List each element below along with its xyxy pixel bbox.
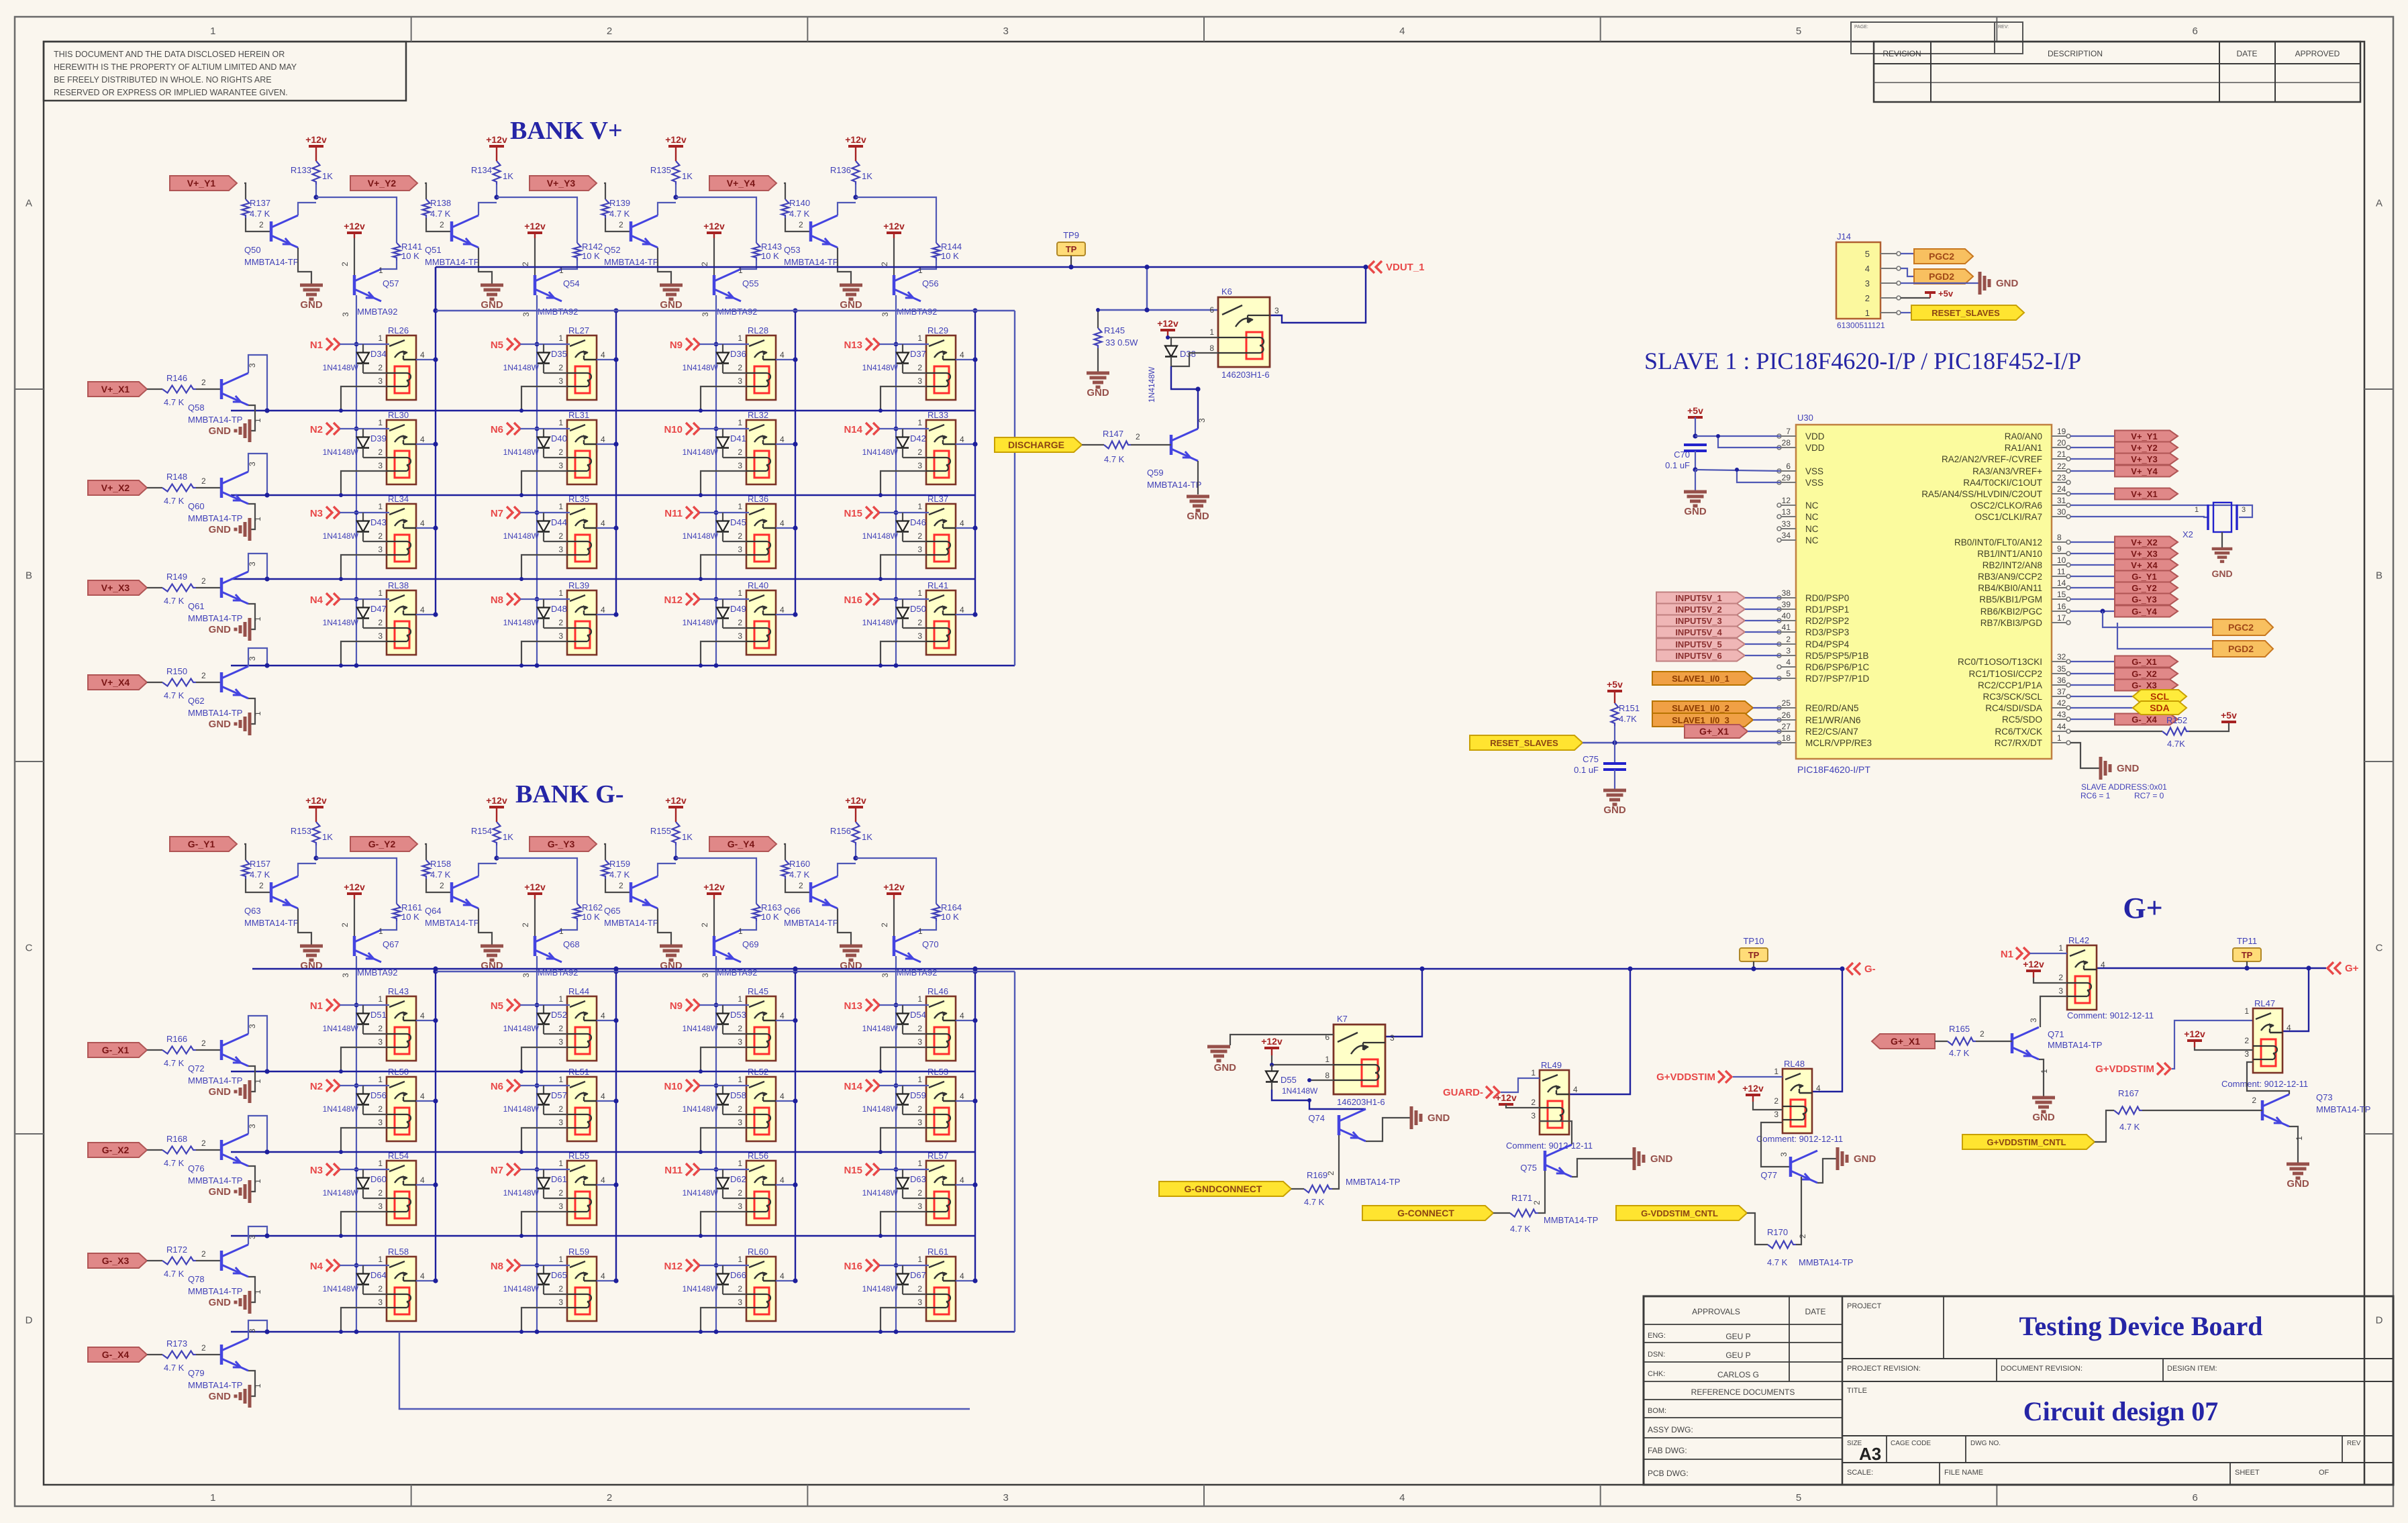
svg-text:GND: GND xyxy=(1650,1153,1673,1165)
svg-text:3: 3 xyxy=(1003,1492,1009,1504)
svg-text:MMBTA92: MMBTA92 xyxy=(357,307,397,317)
wire xyxy=(534,899,536,936)
svg-text:Q64: Q64 xyxy=(425,906,442,916)
wire VSS pins xyxy=(1695,470,1780,471)
svg-text:B: B xyxy=(2376,570,2382,582)
port flag G-_Y3 xyxy=(530,837,597,851)
svg-text:3: 3 xyxy=(1786,646,1791,655)
svg-text:1: 1 xyxy=(558,1255,563,1264)
resistor R137 4.7K xyxy=(242,199,250,218)
svg-text:4: 4 xyxy=(601,350,605,360)
wire xyxy=(676,858,756,904)
svg-text:1: 1 xyxy=(210,1492,215,1504)
row bus wire xyxy=(231,410,975,411)
svg-text:R138: R138 xyxy=(430,198,451,208)
svg-text:Q70: Q70 xyxy=(922,939,939,949)
svg-text:4: 4 xyxy=(601,1175,605,1185)
pin 18 MCLR/VPP/RE3 xyxy=(1781,742,1796,743)
svg-text:2: 2 xyxy=(880,262,889,266)
svg-text:Q60: Q60 xyxy=(188,501,205,511)
svg-text:N10: N10 xyxy=(664,1081,683,1092)
svg-text:2: 2 xyxy=(917,1104,922,1114)
svg-text:V+_X1: V+_X1 xyxy=(2131,489,2157,499)
transistor Q51 MMBTA14-TP xyxy=(450,221,454,242)
wire xyxy=(562,260,577,269)
svg-text:+5v: +5v xyxy=(1687,405,1703,416)
pin 41 RD3/PSP3 xyxy=(1781,631,1796,633)
svg-text:4: 4 xyxy=(601,1011,605,1020)
svg-text:V+_Y2: V+_Y2 xyxy=(368,178,397,189)
wire xyxy=(479,248,492,285)
svg-text:DWG NO.: DWG NO. xyxy=(1970,1440,2001,1447)
wire xyxy=(479,203,497,215)
port G-GNDCONNECT xyxy=(1159,1181,1291,1196)
wire xyxy=(881,1212,926,1236)
wire xyxy=(534,238,536,275)
svg-text:2: 2 xyxy=(917,618,922,627)
svg-text:+12v: +12v xyxy=(524,221,546,231)
svg-text:3: 3 xyxy=(378,1202,383,1211)
svg-text:D64: D64 xyxy=(370,1270,387,1280)
wire xyxy=(879,1004,929,1006)
svg-text:2: 2 xyxy=(340,262,350,266)
svg-text:GND: GND xyxy=(2287,1178,2309,1190)
transistor Q71 MMBTA14-TP xyxy=(2011,1033,2014,1053)
svg-text:2: 2 xyxy=(558,1024,563,1033)
svg-text:OSC1/CLKI/RA7: OSC1/CLKI/RA7 xyxy=(1974,512,2042,522)
svg-text:1: 1 xyxy=(378,1159,383,1168)
wire xyxy=(597,443,616,445)
wire xyxy=(699,1169,749,1170)
svg-text:GND: GND xyxy=(660,299,683,311)
svg-text:1: 1 xyxy=(2195,506,2199,514)
svg-text:4.7 K: 4.7 K xyxy=(789,870,810,880)
svg-text:TP: TP xyxy=(1066,244,1077,254)
svg-text:D53: D53 xyxy=(730,1010,746,1020)
relay RL58 xyxy=(378,1247,425,1321)
wire xyxy=(2246,961,2248,968)
svg-text:3: 3 xyxy=(2029,1018,2038,1022)
svg-text:RB3/AN9/CCP2: RB3/AN9/CCP2 xyxy=(1978,572,2042,582)
svg-text:146203H1-6: 146203H1-6 xyxy=(1337,1097,1385,1107)
relay RL35 xyxy=(558,494,605,568)
pin 28 VDD xyxy=(1781,447,1796,448)
svg-text:G-_X1: G-_X1 xyxy=(102,1045,130,1055)
svg-text:MMBTA14-TP: MMBTA14-TP xyxy=(425,257,479,267)
svg-text:2: 2 xyxy=(917,1284,922,1294)
resistor R161 10K xyxy=(393,904,401,921)
svg-text:K6: K6 xyxy=(1221,286,1232,297)
svg-text:PGC2: PGC2 xyxy=(2228,622,2254,633)
svg-text:RL27: RL27 xyxy=(568,325,589,335)
port flag V+_Y3 xyxy=(530,176,597,191)
wire xyxy=(2070,707,2133,708)
svg-text:GND: GND xyxy=(209,425,232,437)
ground below Q73 xyxy=(2287,1163,2309,1166)
svg-text:3: 3 xyxy=(738,1037,742,1047)
ground for Q78 xyxy=(248,1291,252,1314)
revision table xyxy=(1851,22,1995,54)
svg-text:MMBTA14-TP: MMBTA14-TP xyxy=(188,708,242,718)
wire xyxy=(381,260,397,269)
wire xyxy=(521,641,567,666)
svg-text:N1: N1 xyxy=(310,1000,323,1012)
wire xyxy=(701,471,746,495)
wire xyxy=(881,641,926,666)
port flag V+_X3 xyxy=(88,580,147,595)
wire xyxy=(723,1294,746,1295)
relay RL57 xyxy=(917,1151,964,1225)
svg-text:N15: N15 xyxy=(844,508,862,519)
svg-text:1: 1 xyxy=(379,266,383,275)
wire xyxy=(881,386,926,411)
svg-text:146203H1-6: 146203H1-6 xyxy=(1221,370,1270,380)
svg-text:V+_X4: V+_X4 xyxy=(101,677,130,688)
relay RL48 xyxy=(1774,1059,1821,1133)
emitter wire xyxy=(248,604,255,629)
wire xyxy=(881,1308,926,1332)
svg-text:G-GNDCONNECT: G-GNDCONNECT xyxy=(1185,1184,1262,1194)
pin 6 VSS xyxy=(1781,470,1796,472)
svg-text:2: 2 xyxy=(201,1343,206,1353)
svg-text:V+_X3: V+_X3 xyxy=(2131,549,2157,559)
svg-text:C: C xyxy=(26,943,33,954)
port flag G-_X2 xyxy=(88,1143,147,1157)
power +12v at K6 xyxy=(1160,329,1175,331)
svg-text:2: 2 xyxy=(440,881,444,890)
wire xyxy=(341,1047,387,1071)
wire xyxy=(1131,444,1171,445)
svg-text:2: 2 xyxy=(738,448,742,457)
svg-text:MMBTA14-TP: MMBTA14-TP xyxy=(188,1175,242,1186)
svg-text:4: 4 xyxy=(780,605,785,615)
power +12v for R153 xyxy=(309,806,323,808)
port SLAVE1_I/0_1 xyxy=(1652,672,1753,685)
svg-text:2: 2 xyxy=(738,618,742,627)
svg-text:REV:: REV: xyxy=(1998,25,2009,30)
svg-text:1N4148W: 1N4148W xyxy=(323,531,359,541)
resistor R160 4.7K xyxy=(782,860,789,879)
port PGC2 right xyxy=(2100,609,2105,613)
svg-text:RB4/KBI0/AN11: RB4/KBI0/AN11 xyxy=(1978,583,2042,593)
svg-text:1N4148W: 1N4148W xyxy=(1282,1086,1318,1096)
svg-text:+12v: +12v xyxy=(665,795,687,806)
svg-text:D50: D50 xyxy=(910,604,926,614)
svg-text:3: 3 xyxy=(1865,278,1870,288)
column trunk wire xyxy=(715,956,717,1332)
svg-text:18: 18 xyxy=(1782,733,1791,743)
wire VDD pins xyxy=(1695,435,1780,437)
svg-text:+5v: +5v xyxy=(2221,710,2237,721)
wire xyxy=(838,248,851,285)
svg-text:1N4148W: 1N4148W xyxy=(683,448,719,457)
svg-text:1N4148W: 1N4148W xyxy=(862,1284,899,1294)
svg-text:R170: R170 xyxy=(1767,1227,1788,1237)
svg-text:3: 3 xyxy=(558,461,563,470)
wire xyxy=(1097,310,1099,328)
port flag V+_X4 xyxy=(88,675,147,690)
svg-text:4: 4 xyxy=(780,519,785,528)
svg-text:4.7 K: 4.7 K xyxy=(1510,1224,1531,1234)
port G-VDDSTIM_CNTL xyxy=(1616,1206,1747,1220)
wire xyxy=(196,1149,221,1151)
svg-text:30: 30 xyxy=(2057,507,2066,517)
wire diode to Q59 xyxy=(1171,366,1198,429)
svg-text:RB6/KBI2/PGC: RB6/KBI2/PGC xyxy=(1980,607,2043,617)
svg-text:R160: R160 xyxy=(789,859,810,869)
diode D38 1N4148W xyxy=(1170,337,1172,346)
wire xyxy=(1745,597,1780,598)
wire xyxy=(776,1184,795,1186)
wire Q59 emitter xyxy=(1197,461,1199,494)
wire xyxy=(956,1280,975,1281)
svg-text:16: 16 xyxy=(2057,602,2066,611)
svg-text:R153: R153 xyxy=(291,826,311,836)
svg-text:1: 1 xyxy=(738,588,742,598)
svg-text:Q78: Q78 xyxy=(188,1274,205,1284)
wire xyxy=(544,1033,567,1035)
svg-text:R164: R164 xyxy=(941,902,962,912)
pin 17 RB7/KBI3/PGD xyxy=(2052,622,2066,623)
wire xyxy=(2070,598,2115,600)
resistor R151 4.7K xyxy=(1611,703,1619,726)
svg-text:RB0/INT0/FLT0/AN12: RB0/INT0/FLT0/AN12 xyxy=(1954,537,2042,547)
pin 27 RE2/CS/AN7 xyxy=(1781,731,1796,732)
wire OSC2 to crystal xyxy=(2070,505,2252,517)
svg-text:R143: R143 xyxy=(761,242,782,252)
wire xyxy=(893,899,895,936)
svg-text:MMBTA14-TP: MMBTA14-TP xyxy=(188,613,242,623)
port flag G-_X3 xyxy=(88,1253,147,1268)
diode D48 1N4148W xyxy=(543,599,544,608)
wire xyxy=(298,908,311,946)
port flag G-_Y1 xyxy=(170,837,237,851)
svg-text:4: 4 xyxy=(420,435,425,444)
svg-text:10 K: 10 K xyxy=(582,251,600,261)
diode D63 1N4148W xyxy=(902,1169,903,1178)
resistor R143 10K xyxy=(753,243,760,260)
wire xyxy=(1695,451,1696,470)
svg-text:N5: N5 xyxy=(491,1000,503,1012)
svg-text:CAGE CODE: CAGE CODE xyxy=(1891,1440,1931,1447)
wire xyxy=(701,1308,746,1332)
wire xyxy=(1291,1188,1304,1190)
svg-text:2: 2 xyxy=(558,1104,563,1114)
bottom bus wire xyxy=(399,1332,970,1409)
relay RL33 xyxy=(917,410,964,484)
svg-text:3: 3 xyxy=(248,1235,257,1239)
port INPUT5V_6 xyxy=(1656,650,1745,662)
diode D62 1N4148W xyxy=(722,1169,723,1178)
svg-text:8: 8 xyxy=(2057,533,2062,542)
svg-text:MMBTA92: MMBTA92 xyxy=(538,307,578,317)
wire xyxy=(316,197,397,243)
power +12v for Q54 xyxy=(528,231,542,234)
svg-text:2: 2 xyxy=(378,1104,383,1114)
svg-text:10 K: 10 K xyxy=(761,251,779,261)
svg-text:1N4148W: 1N4148W xyxy=(323,1188,359,1198)
pin4 bus wire xyxy=(795,971,796,1281)
svg-text:RC5/SDO: RC5/SDO xyxy=(2002,715,2042,725)
pin 31 OSC2/CLKO/RA6 xyxy=(2052,505,2066,506)
wire xyxy=(544,1294,567,1295)
svg-text:GND: GND xyxy=(840,299,862,311)
net harpoon G+ xyxy=(2327,962,2334,974)
pin 19 RA0/AN0 xyxy=(2052,435,2066,437)
svg-text:+12v: +12v xyxy=(883,221,905,231)
svg-text:1N4148W: 1N4148W xyxy=(683,363,719,372)
svg-text:INPUT5V_2: INPUT5V_2 xyxy=(1675,605,1721,615)
wire xyxy=(298,248,311,285)
svg-text:1: 1 xyxy=(738,418,742,427)
relay RL41 xyxy=(917,580,964,655)
svg-text:3: 3 xyxy=(881,312,890,317)
svg-text:FAB DWG:: FAB DWG: xyxy=(1648,1446,1687,1455)
svg-text:NC: NC xyxy=(1805,501,1819,511)
svg-text:2: 2 xyxy=(1865,293,1870,303)
svg-text:INPUT5V_5: INPUT5V_5 xyxy=(1675,639,1721,649)
svg-text:2: 2 xyxy=(558,531,563,541)
svg-text:+12v: +12v xyxy=(2184,1029,2205,1039)
svg-text:2: 2 xyxy=(607,1492,612,1504)
port flag V+_Y1 xyxy=(170,176,237,191)
svg-text:GEU P: GEU P xyxy=(1725,1351,1750,1360)
svg-text:1: 1 xyxy=(738,333,742,343)
svg-text:2: 2 xyxy=(378,618,383,627)
emitter wire xyxy=(248,1371,255,1396)
wire xyxy=(520,1169,570,1170)
resistor R169 4.7K xyxy=(1304,1186,1332,1193)
wire xyxy=(316,858,397,904)
svg-text:G-CONNECT: G-CONNECT xyxy=(1397,1208,1454,1218)
svg-text:2: 2 xyxy=(201,1039,206,1048)
diode D51 1N4148W xyxy=(362,1005,364,1014)
svg-text:1N4148W: 1N4148W xyxy=(862,448,899,457)
wire xyxy=(496,845,497,858)
svg-text:N11: N11 xyxy=(664,508,683,519)
svg-text:RL59: RL59 xyxy=(568,1247,589,1257)
svg-text:V+_Y1: V+_Y1 xyxy=(2131,431,2157,441)
svg-text:2: 2 xyxy=(378,363,383,372)
wire xyxy=(2070,661,2115,662)
transistor Q68 MMBTA92 xyxy=(534,936,537,956)
resistor R144 10K xyxy=(933,243,940,260)
svg-text:D: D xyxy=(26,1315,33,1326)
wire xyxy=(776,443,795,445)
svg-text:1N4148W: 1N4148W xyxy=(503,363,540,372)
wire xyxy=(723,1198,746,1199)
relay RL49 xyxy=(1531,1060,1578,1135)
pin 12 NC xyxy=(1781,505,1796,506)
pin 33 NC xyxy=(1781,528,1796,529)
wire xyxy=(956,1020,975,1021)
svg-text:GND: GND xyxy=(1684,506,1707,517)
port flag V+_X1 xyxy=(88,382,147,397)
svg-text:4.7 K: 4.7 K xyxy=(1104,454,1125,464)
G+ bus wire xyxy=(2097,967,2326,969)
wire xyxy=(675,845,676,858)
pin 7 VDD xyxy=(1781,435,1796,437)
wire xyxy=(1901,254,1914,256)
wire xyxy=(879,512,929,513)
wire xyxy=(1901,268,1914,276)
svg-text:4.7 K: 4.7 K xyxy=(164,690,185,700)
wire xyxy=(597,614,616,615)
svg-text:1: 1 xyxy=(378,1075,383,1084)
pin 24 RA5/AN4/SS/HLVDIN/C2OUT xyxy=(2052,493,2066,494)
wire xyxy=(597,1280,616,1281)
pin4 top bus wire xyxy=(436,971,1015,972)
svg-text:Circuit design 07: Circuit design 07 xyxy=(2023,1396,2218,1426)
svg-text:Q50: Q50 xyxy=(244,245,261,255)
svg-text:ASSY DWG:: ASSY DWG: xyxy=(1648,1425,1693,1434)
svg-text:R133: R133 xyxy=(291,165,311,175)
power +12v for Q69 xyxy=(707,892,721,895)
wire xyxy=(246,218,271,231)
svg-text:3: 3 xyxy=(1531,1111,1536,1120)
svg-text:HEREWITH IS THE PROPERTY OF AL: HEREWITH IS THE PROPERTY OF ALTIUM LIMIT… xyxy=(54,62,297,72)
wire xyxy=(2070,673,2115,674)
svg-text:4: 4 xyxy=(601,519,605,528)
svg-text:2: 2 xyxy=(1532,1200,1542,1205)
wire xyxy=(741,921,756,930)
svg-text:4.7K: 4.7K xyxy=(2167,739,2185,749)
svg-text:RL61: RL61 xyxy=(927,1247,948,1257)
svg-text:SLAVE1_I/0_1: SLAVE1_I/0_1 xyxy=(1672,674,1729,684)
svg-text:3: 3 xyxy=(917,1298,922,1307)
svg-text:3: 3 xyxy=(248,1024,257,1029)
relay RL31 xyxy=(558,410,605,484)
svg-text:3: 3 xyxy=(917,461,922,470)
wire xyxy=(723,457,746,458)
svg-text:INPUT5V_4: INPUT5V_4 xyxy=(1675,627,1722,637)
svg-text:37: 37 xyxy=(2057,687,2066,696)
wire xyxy=(699,1004,749,1006)
wire to RL47 pin4 xyxy=(2282,968,2309,1031)
collector wire xyxy=(248,1320,267,1338)
svg-text:10 K: 10 K xyxy=(761,912,779,922)
wire RL49 pin3 to Q75 xyxy=(1540,1121,1572,1145)
svg-text:2: 2 xyxy=(558,1284,563,1294)
power +12v for Q67 xyxy=(347,892,362,895)
svg-text:4: 4 xyxy=(960,1175,964,1185)
port DISCHARGE xyxy=(995,437,1082,452)
svg-text:A: A xyxy=(2376,198,2382,209)
svg-text:1N4148W: 1N4148W xyxy=(323,363,359,372)
pin 1 RC7/RX/DT xyxy=(2052,742,2066,743)
wire xyxy=(1695,470,1696,492)
wire xyxy=(416,527,436,529)
diode D43 1N4148W xyxy=(362,513,364,521)
wire xyxy=(341,555,387,579)
svg-text:N6: N6 xyxy=(491,424,503,435)
wire xyxy=(244,844,246,860)
svg-text:3: 3 xyxy=(248,363,257,368)
svg-text:Q62: Q62 xyxy=(188,696,205,706)
wire xyxy=(723,541,746,542)
svg-text:MMBTA14-TP: MMBTA14-TP xyxy=(1544,1215,1598,1225)
svg-text:D42: D42 xyxy=(910,433,926,443)
relay RL53 xyxy=(917,1067,964,1141)
svg-text:NC: NC xyxy=(1805,524,1819,534)
power +12v at RL42 xyxy=(2026,969,2041,972)
column trunk wire xyxy=(715,295,717,666)
svg-text:GND: GND xyxy=(209,719,232,730)
wire xyxy=(416,359,436,360)
svg-text:G-_X1: G-_X1 xyxy=(2131,657,2157,667)
svg-text:V+_Y2: V+_Y2 xyxy=(2131,443,2157,453)
wire xyxy=(354,238,355,275)
